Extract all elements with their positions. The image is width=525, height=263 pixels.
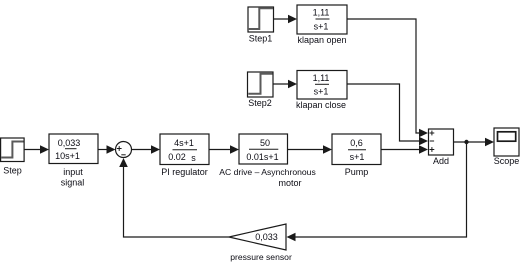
svg-text:4s+1: 4s+1: [174, 138, 194, 148]
transfer function U4 PI regulator: [160, 134, 209, 165]
wire pressure sensor to sum bottom: [124, 166, 230, 237]
svg-text:1,11: 1,11: [313, 8, 330, 18]
svg-text:0.01s+1: 0.01s+1: [246, 152, 278, 162]
svg-text:s: s: [191, 153, 196, 163]
svg-text:PI regulator: PI regulator: [161, 167, 208, 177]
svg-text:Add: Add: [433, 156, 449, 166]
step source Step1: [248, 7, 274, 32]
junction node: [464, 140, 468, 144]
wire klapan close to Add input 2: [347, 84, 419, 141]
svg-text:50: 50: [260, 138, 270, 148]
svg-text:klapan open: klapan open: [297, 35, 346, 45]
gain G1 pressure sensor: [229, 224, 286, 250]
wire Step1 to klapan open: [274, 15, 298, 24]
wire PI regulator to AC drive: [209, 145, 239, 154]
wire AC drive to Pump: [288, 145, 333, 154]
wire sum to PI regulator: [132, 145, 161, 154]
svg-text:input: input: [63, 167, 83, 177]
svg-text:Step: Step: [3, 166, 22, 176]
svg-text:Pump: Pump: [345, 167, 369, 177]
wire Pump to Add input 3: [381, 145, 428, 154]
step source Step2: [248, 72, 274, 97]
svg-text:signal: signal: [61, 178, 85, 188]
svg-text:AC drive – Asynchronous: AC drive – Asynchronous: [219, 167, 316, 177]
svg-text:0,6: 0,6: [350, 138, 363, 148]
wire feedback from junction down and left: [295, 142, 467, 237]
svg-text:0.02: 0.02: [168, 152, 186, 162]
transfer function U5 AC drive: [239, 134, 288, 164]
transfer function U3 input signal: [49, 134, 98, 164]
svg-text:motor: motor: [278, 178, 301, 188]
svg-text:Scope: Scope: [494, 156, 520, 166]
scope Scope: [494, 128, 519, 156]
wire Step to input signal: [24, 145, 49, 154]
svg-text:s+1: s+1: [314, 22, 329, 32]
wire klapan open to Add input 1: [347, 19, 419, 133]
wire Add to Scope: [454, 138, 495, 147]
svg-text:pressure sensor: pressure sensor: [230, 252, 292, 262]
step source Step: [1, 138, 25, 162]
adder Add: [429, 129, 454, 155]
svg-text:0,033: 0,033: [58, 138, 81, 148]
svg-text:Step1: Step1: [249, 34, 273, 44]
sum junction S1: [116, 142, 132, 158]
svg-text:s+1: s+1: [350, 152, 365, 162]
transfer function U2 klapan close: [297, 71, 347, 100]
svg-text:s+1: s+1: [314, 87, 329, 97]
transfer function U6 Pump: [332, 134, 381, 165]
wire input signal to sum: [98, 145, 116, 154]
wire Step2 to klapan close: [273, 80, 297, 89]
svg-text:Step2: Step2: [248, 98, 272, 108]
svg-text:10s+1: 10s+1: [55, 151, 80, 161]
svg-text:1,11: 1,11: [313, 73, 330, 83]
svg-text:klapan close: klapan close: [296, 100, 346, 110]
svg-text:0,033: 0,033: [255, 232, 278, 242]
transfer function U1 klapan open: [297, 5, 347, 34]
